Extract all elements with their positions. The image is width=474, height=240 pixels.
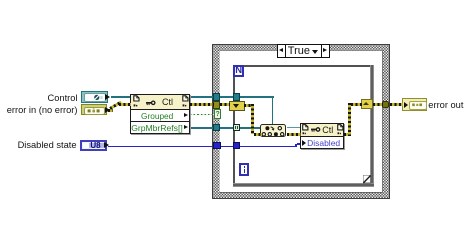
wire refnum property node to case	[190, 96, 214, 97]
label Control	[48, 93, 78, 103]
node act on references	[260, 124, 286, 137]
wire error property to case	[190, 103, 214, 106]
terminal U8 arrow	[104, 142, 109, 148]
terminal Control refnum	[81, 91, 108, 103]
refnum out corner glyph	[182, 95, 191, 108]
wire error shift register to corner	[244, 104, 254, 107]
terminal Control arrow	[105, 94, 110, 100]
loop iterator i	[239, 163, 249, 175]
property node 1	[130, 94, 190, 134]
wire error SR to case edge	[373, 103, 383, 106]
wire refnum element in loop	[240, 127, 261, 129]
property node 2	[300, 123, 345, 150]
refnum in corner glyph	[133, 95, 142, 108]
terminal error in arrow	[105, 107, 110, 113]
tunnel error case right	[382, 101, 389, 108]
row 1 Ctl	[301, 124, 344, 137]
tunnel array case left	[213, 124, 221, 132]
row 1 Ctl	[131, 95, 189, 110]
tunnel U8 case left	[213, 142, 220, 149]
key glyph	[146, 100, 158, 108]
for loop resize corner	[363, 175, 371, 183]
wire error node to property 2	[287, 133, 301, 136]
wire refnum vertical drop	[272, 96, 273, 124]
tunnel refnum for loop	[233, 93, 240, 101]
label Disabled state	[18, 140, 77, 150]
loop count N	[233, 65, 243, 77]
wire error case to error out	[390, 103, 403, 106]
row 3 GrpMbrRefs[]	[131, 122, 189, 134]
tunnel error case left	[213, 101, 221, 108]
key glyph	[311, 127, 322, 134]
wire error case to shift register	[220, 103, 230, 106]
refnum out corner glyph	[337, 124, 345, 136]
wire refnum case to for loop	[220, 96, 234, 97]
wire boolean grouped dotted	[190, 114, 215, 115]
wire U8	[108, 146, 297, 148]
terminal error in	[81, 104, 107, 115]
tunnel U8 for loop	[233, 142, 240, 149]
tunnel refnum case left	[213, 93, 221, 101]
label error in	[7, 105, 78, 115]
row 2 Grouped	[131, 110, 189, 122]
wire refnum array property to case	[190, 127, 214, 129]
wire error property 2 up to shift register	[344, 133, 351, 136]
shift register left	[229, 101, 245, 112]
terminal error out	[402, 98, 427, 111]
wire error in staircase	[108, 109, 113, 112]
auto index tunnel	[233, 124, 240, 131]
refnum in corner glyph	[302, 124, 310, 136]
for loop border	[233, 65, 235, 186]
wire refnum array case to for	[220, 127, 234, 129]
terminal Disabled state U8	[80, 140, 107, 151]
wire refnum inside loop horizontal	[240, 96, 274, 97]
wire refnum node to property 2	[287, 127, 301, 128]
label error out	[428, 100, 463, 110]
shift register right	[361, 99, 373, 108]
case selector terminal	[214, 109, 221, 119]
row 2 Disabled	[301, 137, 344, 151]
wire refnum control to property node	[111, 96, 131, 97]
case selector label True	[277, 44, 330, 58]
case structure border	[212, 44, 390, 199]
